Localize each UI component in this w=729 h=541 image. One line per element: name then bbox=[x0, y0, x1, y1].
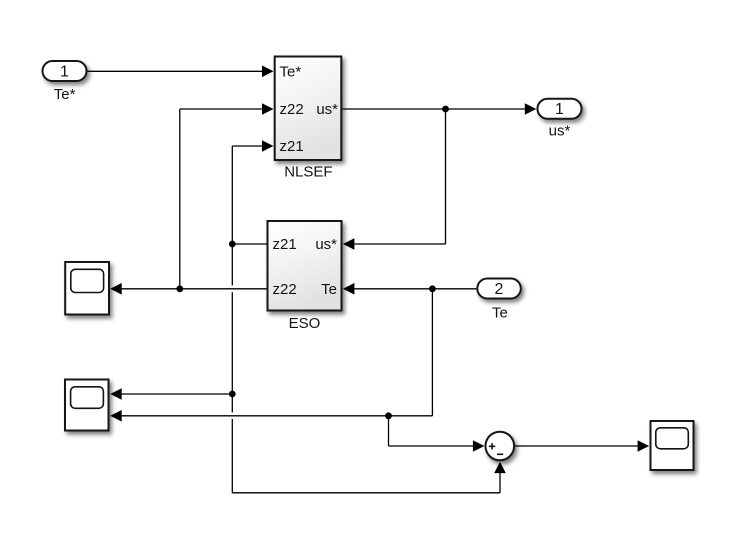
svg-text:us*: us* bbox=[316, 101, 338, 118]
junction z22 branch bbox=[176, 285, 183, 292]
svg-text:us*: us* bbox=[315, 236, 337, 253]
inport 2 (Te) bbox=[477, 279, 521, 299]
scope 3 bbox=[651, 421, 694, 470]
wire ESO z21 out (horizontal) bbox=[232, 243, 266, 245]
wire ESO z22 out to scope1 (horizontal) bbox=[110, 283, 266, 295]
svg-text:Te: Te bbox=[492, 305, 508, 322]
svg-text:z22: z22 bbox=[273, 281, 297, 298]
svg-text:z21: z21 bbox=[280, 138, 304, 155]
junction z21 branch bbox=[229, 241, 236, 248]
scope 1 bbox=[65, 262, 109, 315]
inport 1 (Te*) bbox=[43, 61, 87, 81]
wire z21 branch down (bottom segment) bbox=[231, 419, 233, 493]
svg-text:NLSEF: NLSEF bbox=[284, 163, 332, 180]
wire z21 branch down (upper segment, gap at z22 crossing) bbox=[231, 244, 233, 285]
scope 2 bbox=[65, 380, 109, 431]
wire Te branch to scope2 input 2 bbox=[110, 410, 432, 422]
svg-text:z22: z22 bbox=[280, 101, 304, 118]
subsystem NLSEF bbox=[275, 57, 342, 161]
wire inport2 to ESO Te input bbox=[343, 283, 476, 295]
svg-text:Te: Te bbox=[321, 281, 337, 298]
subsystem ESO bbox=[268, 221, 342, 311]
wire Te branch down bbox=[431, 289, 433, 416]
svg-text:2: 2 bbox=[495, 281, 504, 298]
wire Te to sum plus input bbox=[389, 440, 485, 452]
svg-text:1: 1 bbox=[60, 63, 69, 80]
junction z21 to scope2 bbox=[229, 391, 236, 398]
wire z21 branch down (middle segment) bbox=[231, 292, 233, 394]
label Te bbox=[492, 305, 508, 322]
svg-text:z21: z21 bbox=[273, 236, 297, 253]
wire us* branch to ESO us* input bbox=[343, 238, 446, 250]
label NLSEF bbox=[284, 163, 332, 180]
svg-text:1: 1 bbox=[555, 101, 564, 118]
wire z22 branch to NLSEF z22 input bbox=[180, 103, 274, 115]
plus sign bbox=[489, 443, 495, 449]
svg-text:ESO: ESO bbox=[289, 315, 321, 332]
svg-text:Te*: Te* bbox=[280, 64, 302, 81]
wire Te junction down bbox=[388, 416, 390, 446]
wire z22 branch up bbox=[179, 109, 181, 289]
junction us* branch bbox=[442, 106, 449, 113]
label Te* bbox=[54, 86, 76, 103]
wire us* branch down bbox=[445, 109, 447, 244]
wire z21 branch down (lower segment, gap at Te crossing) bbox=[231, 394, 233, 413]
wire NLSEF us* to outport (horizontal) bbox=[343, 103, 537, 115]
wire z21 up into sum minus input bbox=[494, 462, 506, 493]
wire inport1 to NLSEF Te* bbox=[88, 66, 274, 78]
wire z21 bottom horizontal to sum bbox=[232, 492, 500, 494]
minus sign bbox=[497, 453, 503, 455]
sum block bbox=[486, 432, 515, 461]
wire z21 branch to NLSEF z21 input bbox=[232, 140, 273, 152]
wire sum output to scope3 bbox=[515, 440, 649, 452]
svg-text:us*: us* bbox=[549, 123, 571, 140]
label ESO bbox=[289, 315, 321, 332]
svg-text:Te*: Te* bbox=[54, 86, 76, 103]
label us* bbox=[549, 123, 571, 140]
wire z21 to scope2 input 1 bbox=[110, 388, 232, 400]
outport 1 (us*) bbox=[538, 99, 582, 119]
junction Te to sum bbox=[385, 412, 392, 419]
junction Te branch bbox=[429, 285, 436, 292]
wire z21 branch up bbox=[231, 146, 233, 244]
